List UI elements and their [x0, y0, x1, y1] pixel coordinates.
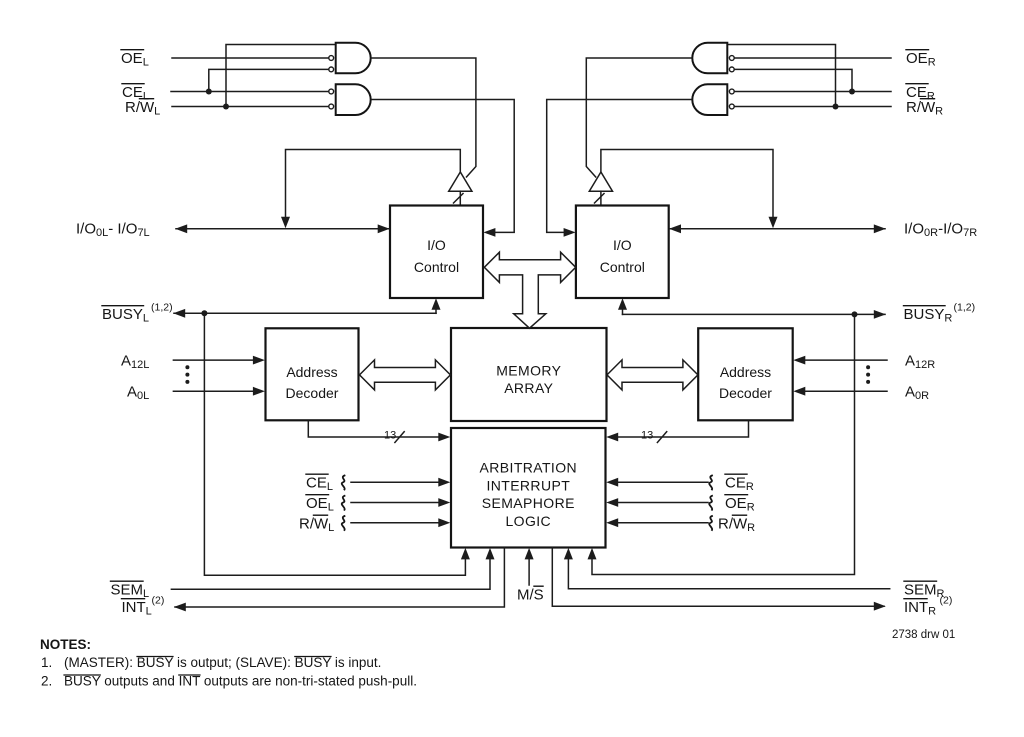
ellipsis dots left address	[185, 365, 189, 384]
wire CE_L branch up to gate G1 lower input	[209, 69, 328, 91]
wire BUSY_R down to arbitration logic	[592, 314, 855, 574]
svg-text:13: 13	[384, 430, 396, 442]
wire R/W_R into arbitration	[613, 522, 709, 524]
bus slash 13 right	[657, 432, 666, 443]
AND gate G3 (right read-enable gate)	[692, 43, 727, 74]
svg-text:LOGIC: LOGIC	[506, 513, 552, 529]
label OE_R	[906, 50, 936, 69]
wire SEM_L to arbitration	[171, 552, 490, 589]
squiggle CE_R	[709, 476, 712, 490]
label M/S	[517, 586, 544, 603]
label SEM_L	[111, 581, 150, 600]
svg-text:BUSYL: BUSYL	[102, 306, 149, 325]
wire G3 output to right buffer enable	[586, 58, 691, 177]
svg-text:SEMAPHORE: SEMAPHORE	[482, 495, 575, 511]
tri-state buffer left	[449, 172, 472, 191]
squiggle OE_R	[709, 496, 712, 510]
svg-text:2738 drw 01: 2738 drw 01	[892, 629, 955, 641]
arrowhead A0R	[793, 387, 805, 396]
wire R/W_L into arbitration	[351, 522, 444, 524]
junction on BUSY_L wire	[201, 310, 207, 316]
wire G1 output to left buffer enable	[372, 58, 476, 177]
svg-text:13: 13	[641, 430, 653, 442]
arrowhead OE_L arbitration	[438, 498, 450, 507]
junction on R/W_L wire	[223, 104, 229, 110]
label SEM_R	[904, 581, 945, 600]
arrowhead I/O bus left outward	[175, 224, 187, 233]
arrowhead INT_L outward	[174, 603, 186, 612]
label CE_R arbitration	[725, 474, 754, 493]
arrowhead A12L	[253, 356, 265, 365]
arrowhead A0L	[253, 387, 265, 396]
label INT_R superscript (2)	[904, 595, 952, 618]
arrowhead CE_R arbitration	[606, 478, 618, 487]
arrowhead OE_R arbitration	[606, 498, 618, 507]
svg-text:I/O: I/O	[427, 237, 446, 253]
wire I/O bus right	[670, 228, 885, 230]
wire G2 output down to left I/O Control	[372, 100, 515, 233]
svg-text:ARBITRATION: ARBITRATION	[480, 460, 577, 476]
arrowhead into left I/O Control right edge	[483, 228, 495, 237]
squiggle R/W_R	[709, 516, 712, 530]
label OE_L arbitration	[306, 495, 334, 514]
wire A12R into right decoder	[800, 359, 887, 361]
wire BUSY_R up into right I/O Control	[622, 303, 624, 314]
wire CE_L into arbitration	[351, 481, 444, 483]
wire R/W_R branch up to gate G3 top input	[727, 45, 836, 107]
label CE_L	[122, 84, 149, 103]
wire R/W_R to gate G4 bottom input	[735, 106, 891, 108]
junction on R/W_R wire	[833, 104, 839, 110]
squiggle CE_L	[342, 476, 345, 490]
svg-text:NOTES:: NOTES:	[40, 637, 91, 652]
svg-text:INTERRUPT: INTERRUPT	[486, 477, 570, 493]
svg-text:Control: Control	[414, 259, 459, 275]
wire OE_L into arbitration	[351, 502, 444, 504]
wire CE_R into arbitration	[613, 481, 709, 483]
arrowhead into right I/O Control left edge	[564, 228, 576, 237]
svg-text:I/O: I/O	[613, 237, 632, 253]
wire OE_L to gate G1 input	[172, 57, 328, 59]
AND gate G2 (left write-enable gate)	[336, 84, 371, 115]
label R/W_L	[125, 99, 160, 118]
arrowhead I/O bus right outward	[874, 224, 886, 233]
label BUSY_L superscript (1,2)	[102, 302, 173, 325]
wire CE_L to gate G2 top input	[171, 91, 328, 93]
svg-text:Address: Address	[286, 364, 337, 380]
label R/W_R	[906, 99, 943, 118]
svg-text:(2): (2)	[940, 595, 953, 607]
squiggle R/W_L	[342, 516, 345, 530]
inverting bubble G3 input OE	[729, 56, 734, 61]
label BUSY_R superscript (1,2)	[904, 302, 976, 325]
bus slash under left buffer	[454, 194, 464, 204]
wire OE_R into arbitration	[613, 502, 709, 504]
arrowhead R/W_L arbitration	[438, 518, 450, 527]
AND gate G1 (left read-enable gate)	[336, 43, 371, 74]
squiggle OE_L	[342, 496, 345, 510]
wire left buffer to I/O Control top with bus slash	[459, 191, 461, 205]
block I/O Control left	[390, 206, 483, 299]
svg-text:(1,2): (1,2)	[954, 302, 976, 314]
wire BUSY_L down to arbitration logic	[204, 313, 465, 575]
bus slash 13 left	[395, 432, 404, 443]
arrowhead SEM_L into arbitration bottom	[486, 548, 495, 560]
svg-text:Address: Address	[720, 364, 771, 380]
label CE_R	[906, 84, 935, 103]
wire BUSY_L horizontal	[174, 312, 436, 314]
hollow double arrow memory to right decoder	[607, 360, 698, 390]
hollow T arrow between I/O controls and memory array	[484, 252, 575, 328]
arrowhead CE_L arbitration	[438, 478, 450, 487]
wire OE_R to gate G3 input	[735, 57, 891, 59]
svg-text:(2): (2)	[152, 595, 165, 607]
note 1	[41, 655, 381, 670]
wire BUSY_L up into left I/O Control	[435, 303, 437, 313]
wire CE_R to gate G4 top input	[735, 91, 891, 93]
wire SEM_R to arbitration	[568, 552, 889, 589]
wire G4 output down to right I/O Control	[547, 100, 692, 233]
block Address Decoder left	[266, 328, 359, 420]
inverting bubble G4 input CE	[729, 89, 734, 94]
block Arbitration Interrupt Semaphore Logic	[451, 428, 606, 548]
svg-text:Control: Control	[600, 259, 645, 275]
junction on BUSY_R wire	[852, 311, 858, 317]
svg-text:1.: 1.	[41, 655, 52, 670]
label OE_R arbitration	[725, 495, 755, 514]
arrowhead R/W_R arbitration	[606, 518, 618, 527]
wire 13-bit bus right decoder to arbitration	[613, 421, 749, 437]
wire 13-bit bus left decoder to arbitration	[308, 421, 444, 437]
arrowhead BUSY_L outward	[173, 309, 185, 318]
svg-text:(MASTER): BUSY is output; (SLA: (MASTER): BUSY is output; (SLAVE): BUSY …	[64, 655, 381, 670]
label OE_L	[121, 50, 149, 69]
wire left buffer output up and to left I/O bus	[286, 150, 461, 220]
wire R/W_L branch up to gate G1 top input	[226, 45, 337, 107]
wire I/O bus left	[176, 228, 389, 230]
AND gate G4 (right write-enable gate)	[692, 84, 727, 115]
block I/O Control right	[576, 206, 669, 299]
svg-text:(1,2): (1,2)	[151, 302, 173, 314]
block Memory Array	[451, 328, 607, 421]
arrowhead BUSY_L into left I/O Control bottom	[432, 298, 441, 310]
svg-text:BUSY outputs and INT outputs a: BUSY outputs and INT outputs are non-tri…	[64, 674, 417, 689]
wire A0L into left decoder	[173, 390, 258, 392]
inverting bubble G3 input CE	[729, 67, 734, 72]
inverting bubble G2 input R/W	[329, 104, 334, 109]
arrowhead BUSY_R into right I/O Control bottom	[618, 298, 627, 310]
wire M/S into arbitration	[528, 552, 530, 585]
junction on CE_R wire	[849, 89, 855, 95]
arrowhead right buffer output onto I/O bus	[769, 217, 778, 229]
ellipsis dots right address	[866, 365, 870, 384]
svg-text:MEMORY: MEMORY	[496, 363, 561, 379]
wire A0R into right decoder	[800, 390, 887, 392]
inverting bubble G1 input CE	[329, 67, 334, 72]
label R/W_L arbitration	[299, 515, 334, 534]
arrowhead I/O bus left into block	[378, 224, 390, 233]
block Address Decoder right	[698, 328, 793, 420]
bus slash under right buffer	[595, 194, 605, 204]
svg-text:ARRAY: ARRAY	[504, 380, 553, 396]
tri-state buffer right	[589, 172, 612, 191]
arrowhead BUSY_R into arbitration bottom	[588, 548, 597, 560]
svg-text:2.: 2.	[41, 674, 52, 689]
svg-text:Decoder: Decoder	[286, 385, 339, 401]
arrowhead 13-bit bus right	[606, 433, 618, 442]
wire right buffer output up and to right I/O bus	[601, 150, 773, 220]
wire INT_L from arbitration	[175, 548, 504, 607]
label CE_L arbitration	[306, 474, 333, 493]
label INT_L superscript (2)	[122, 595, 165, 618]
svg-text:M/S: M/S	[517, 587, 544, 604]
wire BUSY_R horizontal	[623, 313, 886, 315]
wire INT_R from arbitration	[552, 548, 884, 607]
note 2	[41, 674, 417, 689]
arrowhead left buffer output onto I/O bus	[281, 217, 290, 229]
arrowhead 13-bit bus left	[438, 433, 450, 442]
arrowhead BUSY_R outward	[874, 310, 886, 319]
label R/W_R arbitration	[718, 515, 755, 534]
arrowhead BUSY_L into arbitration bottom	[461, 548, 470, 560]
wire A12L into left decoder	[173, 359, 258, 361]
arrowhead I/O bus right into block	[669, 224, 681, 233]
arrowhead SEM_R into arbitration bottom	[564, 548, 573, 560]
inverting bubble G4 input R/W	[729, 104, 734, 109]
svg-text:Decoder: Decoder	[719, 385, 772, 401]
arrowhead A12R	[793, 356, 805, 365]
wire CE_R branch up to gate G3 lower input	[735, 69, 852, 91]
arrowhead INT_R outward	[874, 602, 886, 611]
wire right buffer to I/O Control top with bus slash	[600, 191, 602, 205]
arrowhead M/S into arbitration bottom	[525, 548, 534, 560]
inverting bubble G1 input OE	[329, 56, 334, 61]
hollow double arrow left decoder to memory	[360, 360, 451, 390]
inverting bubble G2 input CE	[329, 89, 334, 94]
junction on CE_L wire	[206, 89, 212, 95]
wire R/W_L to gate G2 bottom input	[172, 106, 328, 108]
